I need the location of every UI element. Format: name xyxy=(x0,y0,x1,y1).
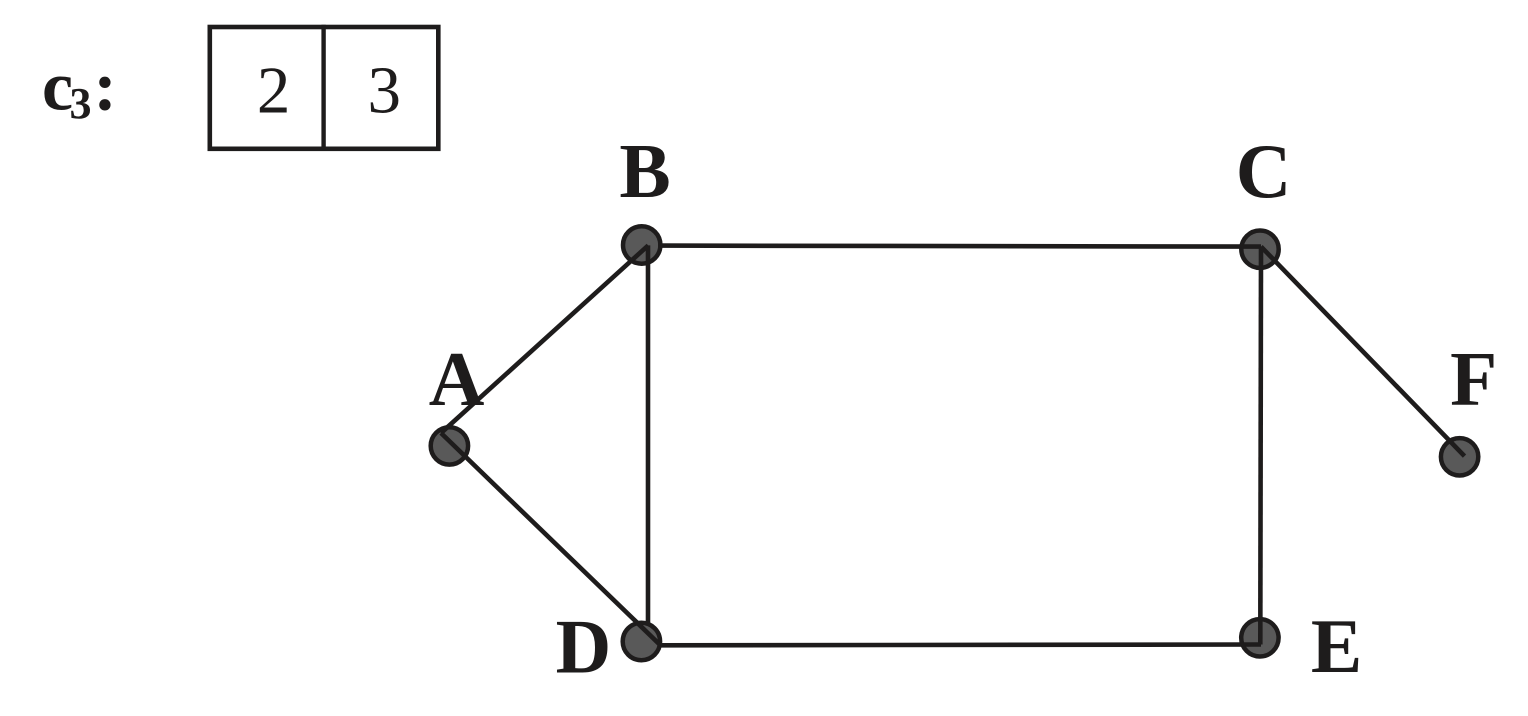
svg-text:D: D xyxy=(556,604,612,690)
edge C-E xyxy=(1258,247,1263,645)
node D xyxy=(623,623,660,660)
node E xyxy=(1241,619,1278,656)
node B xyxy=(623,226,660,263)
edge A-B xyxy=(441,245,648,433)
svg-text:B: B xyxy=(619,128,670,214)
svg-text:C: C xyxy=(1236,128,1292,214)
cost table box xyxy=(210,27,438,149)
node A xyxy=(431,427,468,464)
node C xyxy=(1241,231,1278,268)
node F xyxy=(1441,438,1478,475)
svg-text:A: A xyxy=(429,336,485,422)
edge C-F xyxy=(1261,247,1465,457)
svg-text::: : xyxy=(94,49,117,126)
svg-text:E: E xyxy=(1311,603,1362,689)
edge B-C xyxy=(658,246,1261,247)
cost table divider xyxy=(321,25,325,151)
svg-text:3: 3 xyxy=(70,79,92,128)
svg-text:F: F xyxy=(1450,335,1497,421)
svg-text:3: 3 xyxy=(368,54,402,128)
svg-text:c: c xyxy=(42,49,73,126)
svg-text:2: 2 xyxy=(257,54,291,128)
edge A-D xyxy=(441,433,661,645)
edge B-D xyxy=(646,245,651,624)
edge D-E xyxy=(661,642,1262,647)
